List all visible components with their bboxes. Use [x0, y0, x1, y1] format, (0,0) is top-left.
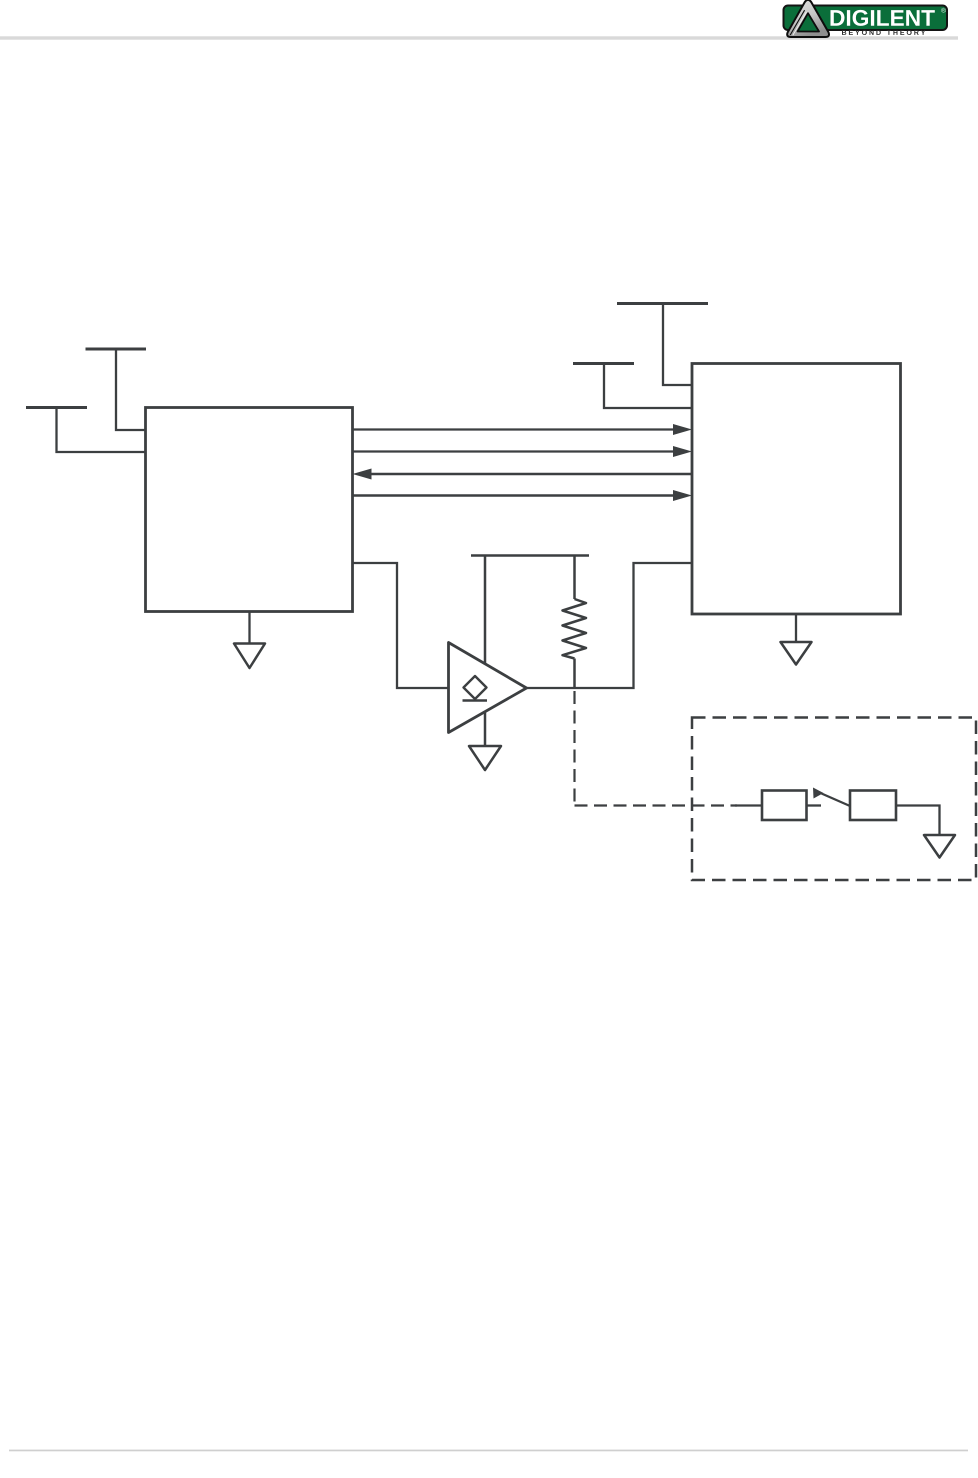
signal wire 2 (to U2, arrow right): [353, 446, 693, 457]
power rail VCC1 (upper left T): [86, 349, 147, 430]
header rule: [0, 36, 958, 39]
buffer output wire to U2: [527, 563, 693, 688]
signal wire 1 (to U2, arrow right): [353, 424, 693, 435]
footer rule: [9, 1450, 968, 1452]
power rail VCC2 (lower left T): [26, 408, 146, 453]
ground of buffer: [469, 746, 501, 770]
ground of U2: [781, 614, 812, 665]
ground of B2: [924, 835, 955, 858]
buffer power pin: [484, 556, 487, 664]
buffer ground pin: [484, 712, 487, 747]
top supply rail of buffer/resistor: [471, 554, 589, 557]
dashed tap wire: [575, 691, 763, 806]
Digilent logo slogan: [842, 30, 925, 35]
resistor R1: [563, 556, 587, 689]
block U1 (left controller): [146, 408, 353, 612]
buffer internal symbol: [463, 676, 488, 701]
wire U1 to buffer input: [353, 563, 449, 688]
switch SW1: [813, 788, 850, 807]
Digilent logo banner: [784, 6, 948, 31]
dashed enclosure: [692, 718, 976, 881]
Digilent logo triangle: [787, 0, 829, 37]
power rail VCC4 (right second T): [573, 364, 692, 409]
box B2 output wire: [896, 806, 940, 836]
box B2: [850, 791, 896, 821]
power rail VCC3 (right top T): [617, 304, 708, 386]
buffer amp U3: [449, 643, 527, 733]
block U2 (right device): [692, 364, 901, 615]
box B1 output stub: [807, 804, 822, 806]
signal wire 4 (to U2, arrow right): [353, 490, 693, 501]
signal wire 3 (to U1, arrow left): [353, 469, 693, 480]
ground of U1: [234, 612, 265, 669]
box B1: [762, 791, 807, 821]
